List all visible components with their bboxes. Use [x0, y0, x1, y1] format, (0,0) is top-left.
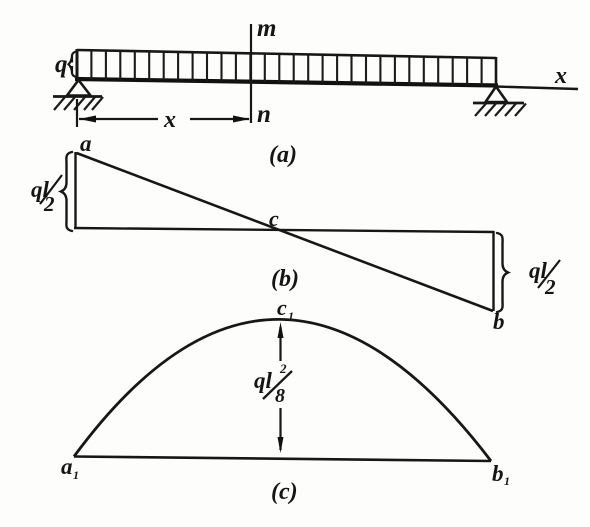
svg-text:(a): (a) — [269, 142, 297, 168]
dimension extension tick at support — [76, 99, 78, 127]
svg-text:b: b — [492, 461, 504, 486]
beam top edge — [77, 50, 496, 58]
svg-text:1: 1 — [504, 474, 510, 488]
svg-text:ql: ql — [254, 368, 273, 393]
right support ground hatching — [475, 104, 526, 117]
svg-text:(b): (b) — [271, 266, 299, 292]
value ql/2 right — [529, 258, 560, 299]
moment parabola — [74, 319, 491, 461]
svg-text:2: 2 — [43, 192, 55, 216]
left support ground hatching — [54, 97, 103, 110]
svg-text:q: q — [55, 51, 68, 78]
svg-text:c: c — [269, 206, 279, 231]
x axis line — [496, 87, 578, 90]
svg-text:c: c — [277, 295, 287, 320]
dimension arrow right — [233, 116, 250, 123]
brace ql/2 right — [497, 233, 508, 312]
moment diagram baseline a1-b1 — [74, 457, 491, 462]
svg-text:a: a — [61, 454, 73, 479]
value ql2/8 — [254, 361, 292, 407]
ordinate arrowhead up — [278, 322, 284, 338]
dimension arrow left — [79, 116, 96, 123]
svg-text:2: 2 — [544, 275, 556, 299]
svg-text:a: a — [80, 131, 92, 156]
label a1 — [61, 454, 79, 482]
section line m-n — [250, 24, 252, 123]
right support pin triangle — [486, 87, 508, 103]
svg-text:m: m — [257, 15, 276, 42]
shear diagram left ordinate — [74, 152, 76, 229]
dimension line left part — [79, 118, 158, 120]
brace ql/2 left — [61, 152, 72, 231]
ordinate arrowhead down — [278, 437, 284, 453]
shear diagram right ordinate — [492, 231, 494, 311]
beam bottom edge (beam axis, thick) — [75, 79, 498, 86]
svg-text:2: 2 — [279, 361, 287, 376]
shear diagram sloping line a-b — [77, 153, 494, 311]
svg-text:8: 8 — [275, 385, 285, 407]
beam right end — [495, 57, 498, 87]
svg-text:n: n — [257, 101, 271, 128]
label c1 — [277, 295, 294, 323]
shear diagram baseline — [74, 228, 494, 232]
svg-text:1: 1 — [73, 468, 79, 482]
dimension line right part — [190, 118, 249, 120]
load intensity brace — [69, 52, 77, 78]
svg-text:1: 1 — [288, 309, 294, 323]
left support ground line — [53, 95, 102, 98]
value ql/2 left — [31, 175, 62, 216]
ordinate arrow line upper — [279, 327, 281, 361]
left support pin triangle — [67, 80, 91, 96]
ordinate arrow line lower — [279, 408, 281, 450]
svg-text:(c): (c) — [271, 479, 298, 505]
label b1 — [492, 461, 510, 488]
beam left end — [76, 49, 79, 80]
distributed load q hatching — [91, 51, 481, 86]
svg-text:x: x — [163, 107, 176, 133]
right support ground line — [473, 102, 524, 105]
svg-text:x: x — [554, 63, 567, 89]
